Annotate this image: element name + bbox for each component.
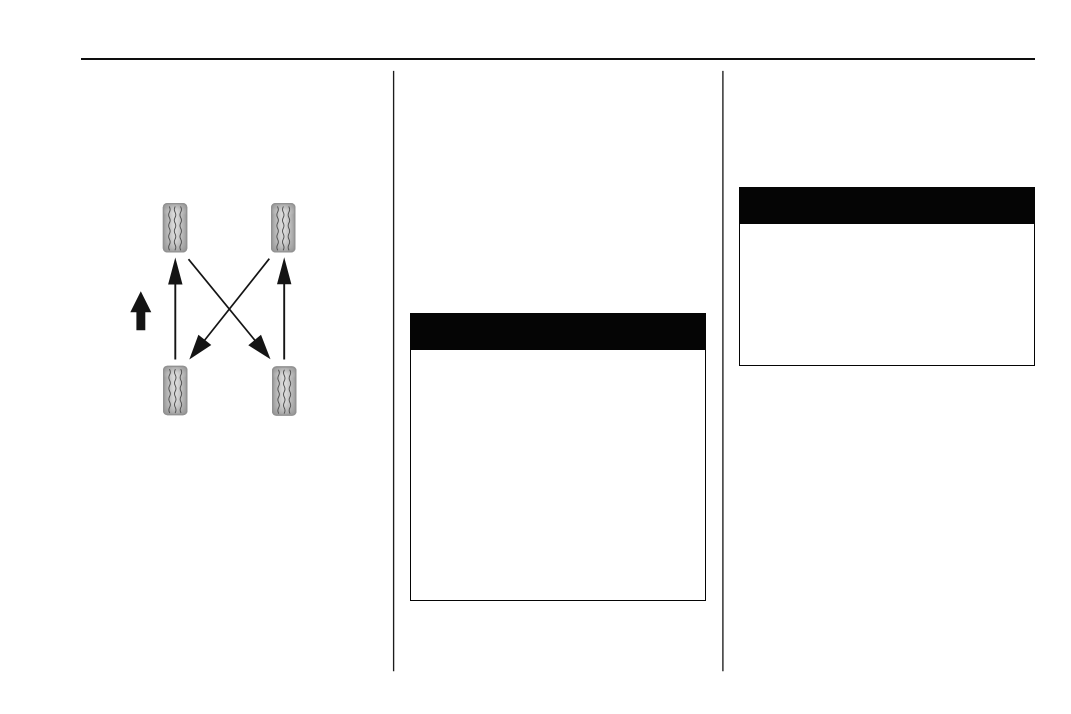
tire right front	[271, 203, 296, 253]
column divider 2	[722, 71, 724, 671]
notice box right column	[739, 187, 1035, 366]
tire left front	[163, 203, 188, 253]
arrow right rear to right front (shaft)	[283, 283, 285, 360]
header rule	[81, 58, 1035, 60]
forward direction bold arrow	[130, 291, 151, 330]
notice box right column header bar	[739, 187, 1035, 224]
arrow left rear to left front (head)	[168, 258, 182, 285]
tire left rear	[163, 366, 188, 416]
arrow left front to right rear (shaft)	[189, 259, 257, 342]
arrow right front to left rear (shaft)	[203, 259, 269, 343]
notice box middle column header bar	[410, 313, 706, 350]
arrow left rear to left front (shaft)	[174, 283, 176, 360]
arrow left front to right rear (head)	[248, 335, 270, 360]
column divider 1	[393, 71, 395, 671]
tire rotation diagram	[100, 180, 340, 440]
arrow right front to left rear (head)	[189, 335, 211, 360]
tire right rear	[272, 366, 297, 416]
notice box middle column	[410, 313, 706, 601]
arrow right rear to right front (head)	[277, 257, 291, 284]
